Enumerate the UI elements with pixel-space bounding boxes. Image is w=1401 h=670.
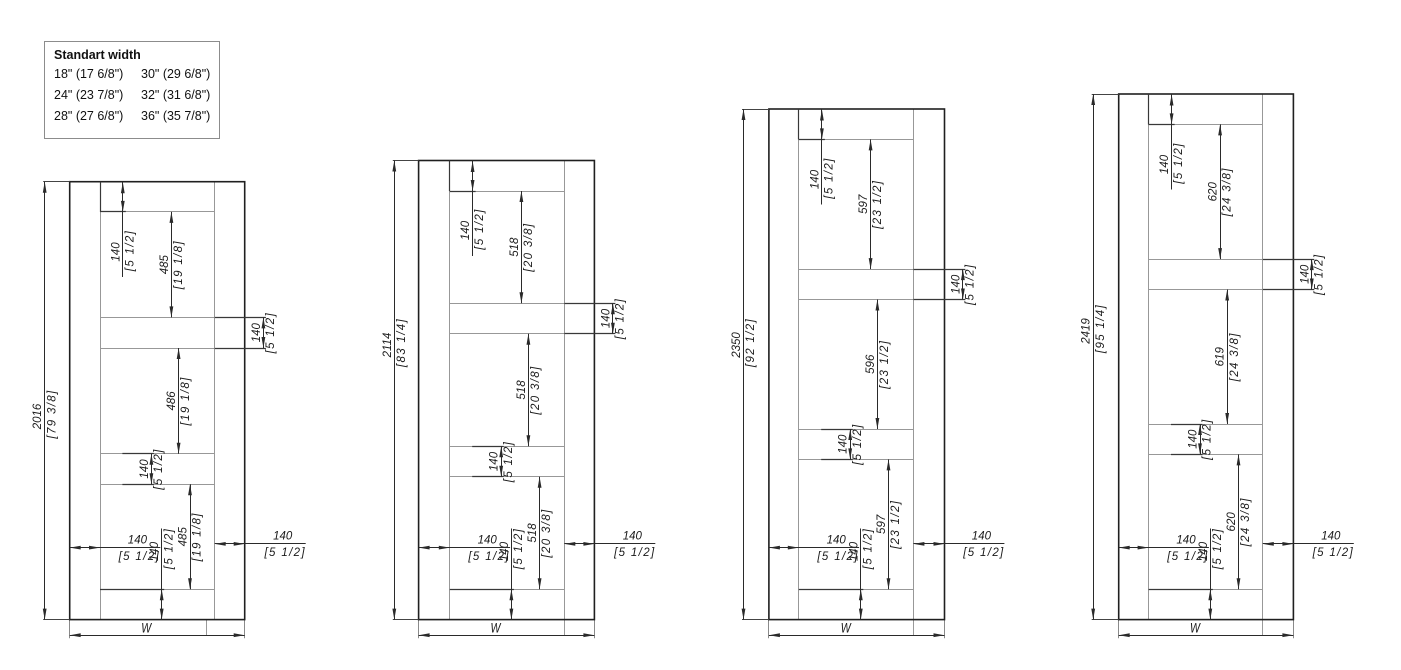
svg-text:518: 518 <box>509 237 521 257</box>
svg-text:W: W <box>841 621 852 636</box>
svg-text:[5 1/2]: [5 1/2] <box>124 230 136 272</box>
svg-text:2350: 2350 <box>731 332 743 359</box>
svg-text:[24 3/8]: [24 3/8] <box>1222 167 1234 217</box>
svg-text:[5 1/2]: [5 1/2] <box>1166 551 1208 563</box>
svg-text:140: 140 <box>1176 534 1196 546</box>
svg-text:485: 485 <box>159 254 171 274</box>
svg-text:140: 140 <box>110 242 122 262</box>
svg-text:[5 1/2]: [5 1/2] <box>824 157 836 199</box>
svg-text:[79 3/8]: [79 3/8] <box>46 389 58 439</box>
svg-text:[5 1/2]: [5 1/2] <box>467 551 509 563</box>
svg-text:[5 1/2]: [5 1/2] <box>852 423 864 465</box>
svg-text:140: 140 <box>489 451 501 471</box>
svg-text:[92 1/2]: [92 1/2] <box>745 318 757 368</box>
svg-text:[5 1/2]: [5 1/2] <box>513 528 525 570</box>
svg-text:[5 1/2]: [5 1/2] <box>862 528 874 570</box>
svg-text:140: 140 <box>139 459 151 479</box>
svg-text:619: 619 <box>1215 347 1227 367</box>
svg-text:[20 3/8]: [20 3/8] <box>541 508 553 558</box>
svg-text:140: 140 <box>273 531 293 543</box>
svg-text:518: 518 <box>527 523 539 543</box>
svg-text:[5 1/2]: [5 1/2] <box>1212 528 1224 570</box>
svg-text:[23 1/2]: [23 1/2] <box>872 180 884 230</box>
svg-text:[5 1/2]: [5 1/2] <box>474 208 486 250</box>
svg-text:[5 1/2]: [5 1/2] <box>962 547 1004 559</box>
svg-text:[19 1/8]: [19 1/8] <box>180 376 192 426</box>
svg-text:140: 140 <box>1188 429 1200 449</box>
svg-text:518: 518 <box>516 380 528 400</box>
svg-text:[5 1/2]: [5 1/2] <box>1173 142 1185 184</box>
svg-text:[83 1/4]: [83 1/4] <box>396 318 408 368</box>
svg-text:[20 3/8]: [20 3/8] <box>530 365 542 415</box>
svg-text:[5 1/2]: [5 1/2] <box>163 528 175 570</box>
svg-text:140: 140 <box>972 531 992 543</box>
svg-text:140: 140 <box>838 434 850 454</box>
svg-text:W: W <box>1190 621 1201 636</box>
svg-text:140: 140 <box>128 534 148 546</box>
svg-text:2114: 2114 <box>382 333 394 359</box>
svg-text:[5 1/2]: [5 1/2] <box>1313 254 1325 296</box>
svg-text:140: 140 <box>1299 264 1311 284</box>
svg-text:2419: 2419 <box>1081 318 1093 345</box>
svg-text:597: 597 <box>876 514 888 534</box>
svg-text:W: W <box>141 621 152 636</box>
svg-text:140: 140 <box>623 531 643 543</box>
svg-text:140: 140 <box>600 308 612 328</box>
svg-text:140: 140 <box>251 323 263 343</box>
svg-text:620: 620 <box>1208 182 1220 202</box>
svg-text:[5 1/2]: [5 1/2] <box>615 298 627 340</box>
svg-text:[19 1/8]: [19 1/8] <box>192 512 204 562</box>
svg-text:[5 1/2]: [5 1/2] <box>118 551 160 563</box>
svg-text:140: 140 <box>827 534 847 546</box>
svg-text:597: 597 <box>858 194 870 214</box>
svg-text:[19 1/8]: [19 1/8] <box>173 240 185 290</box>
svg-text:140: 140 <box>1159 154 1171 174</box>
svg-text:[23 1/2]: [23 1/2] <box>879 340 891 390</box>
svg-text:140: 140 <box>478 534 498 546</box>
svg-text:[5 1/2]: [5 1/2] <box>153 448 165 490</box>
svg-text:[5 1/2]: [5 1/2] <box>613 547 655 559</box>
svg-text:596: 596 <box>865 354 877 374</box>
svg-text:[5 1/2]: [5 1/2] <box>265 312 277 354</box>
svg-text:140: 140 <box>809 169 821 189</box>
svg-text:[5 1/2]: [5 1/2] <box>965 264 977 306</box>
svg-text:[5 1/2]: [5 1/2] <box>1202 418 1214 460</box>
svg-text:[5 1/2]: [5 1/2] <box>503 441 515 483</box>
svg-text:[24 3/8]: [24 3/8] <box>1229 332 1241 382</box>
svg-text:[5 1/2]: [5 1/2] <box>263 547 305 559</box>
svg-text:2016: 2016 <box>32 403 44 430</box>
svg-text:485: 485 <box>178 527 190 547</box>
svg-text:[24 3/8]: [24 3/8] <box>1240 497 1252 547</box>
svg-text:W: W <box>491 621 502 636</box>
svg-text:140: 140 <box>1321 531 1341 543</box>
svg-text:620: 620 <box>1226 512 1238 532</box>
svg-text:[23 1/2]: [23 1/2] <box>890 500 902 550</box>
svg-text:[95 1/4]: [95 1/4] <box>1095 304 1107 354</box>
svg-text:140: 140 <box>460 220 472 240</box>
svg-text:140: 140 <box>950 274 962 294</box>
svg-text:[20 3/8]: [20 3/8] <box>523 223 535 273</box>
svg-text:486: 486 <box>166 391 178 411</box>
svg-text:[5 1/2]: [5 1/2] <box>816 551 858 563</box>
svg-text:[5 1/2]: [5 1/2] <box>1312 547 1354 559</box>
